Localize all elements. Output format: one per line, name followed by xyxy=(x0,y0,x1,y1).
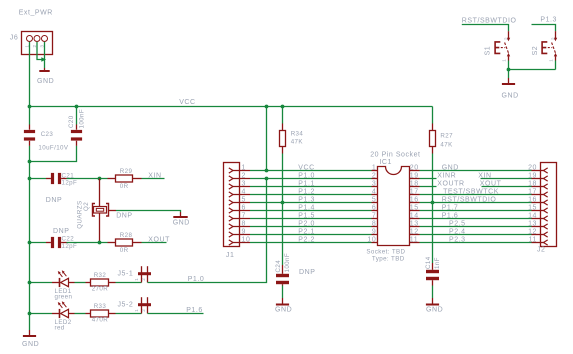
svg-text:C24: C24 xyxy=(275,260,282,273)
wire XOUTR stub from IC1 pin 18 xyxy=(420,186,437,188)
svg-text:1: 1 xyxy=(372,164,376,171)
switch S1 xyxy=(495,31,510,60)
jumper J5-1 xyxy=(138,266,151,282)
svg-text:P2.0: P2.0 xyxy=(298,220,315,227)
svg-text:DNP: DNP xyxy=(53,228,69,235)
IC1 pin 1 lead xyxy=(372,170,378,172)
svg-text:20: 20 xyxy=(528,164,537,171)
connector J1 pin 10 xyxy=(229,240,250,245)
wire P2.5 from IC1 pin 13 to J2 xyxy=(420,226,532,228)
connector J2 pin 16 xyxy=(532,200,548,205)
svg-text:0R: 0R xyxy=(120,247,129,254)
svg-text:9: 9 xyxy=(372,228,376,235)
connector J1 body xyxy=(224,163,240,247)
wire LED2 to R33 xyxy=(75,313,86,315)
svg-text:P1.5: P1.5 xyxy=(298,212,315,219)
svg-text:P1.0: P1.0 xyxy=(298,172,315,179)
svg-text:5: 5 xyxy=(372,196,376,203)
IC1 pin 3 lead xyxy=(372,186,378,188)
IC1 pin 10 lead xyxy=(372,242,378,244)
wire LED1 to R32 xyxy=(75,282,86,284)
svg-text:DNP: DNP xyxy=(299,269,315,276)
connector J2 pin 13 xyxy=(532,224,548,229)
junction arrow J6 pins 2-3 xyxy=(41,57,46,62)
IC1 pin 9 lead xyxy=(372,234,378,236)
wire XIN to J2 pin 19 xyxy=(481,178,532,180)
wire P2.4 from IC1 pin 12 to J2 xyxy=(420,234,532,236)
svg-text:8: 8 xyxy=(242,220,246,227)
connector J2 pin 12 xyxy=(532,232,548,237)
svg-text:R33: R33 xyxy=(94,303,107,310)
switch S2 xyxy=(542,31,557,60)
IC1 pin 6 lead xyxy=(372,210,378,212)
wire P1.3 to S2 xyxy=(532,25,556,32)
connector J1 pin 3 xyxy=(229,184,250,189)
svg-text:R28: R28 xyxy=(120,232,133,239)
wire RST/SBWTDIO from IC1 pin 16 to J2 xyxy=(420,202,532,204)
svg-text:13: 13 xyxy=(528,220,537,227)
ground GND under J6 xyxy=(37,68,54,85)
wire XIN stub xyxy=(142,178,165,180)
resistor R33 xyxy=(86,310,116,317)
svg-text:C23: C23 xyxy=(41,131,54,138)
svg-text:15: 15 xyxy=(528,204,537,211)
connector J2 pin 15 xyxy=(532,208,548,213)
wire LED2 row from GND rail xyxy=(30,313,53,315)
IC1 pin 18 lead xyxy=(410,186,420,188)
svg-text:1nF: 1nF xyxy=(434,257,441,269)
junction GND rail / LED1 xyxy=(28,281,32,285)
svg-text:P1.4: P1.4 xyxy=(298,204,315,211)
wire J1 pin 4 to IC1 pin 4 (P1.2) xyxy=(250,194,372,196)
svg-text:12pF: 12pF xyxy=(62,243,78,250)
connector J2 pin 18 xyxy=(532,184,548,189)
wire J6 pin3 down xyxy=(44,42,46,68)
svg-text:12: 12 xyxy=(528,228,537,235)
svg-text:XOUT: XOUT xyxy=(148,237,170,244)
ground GND bottom of left rail xyxy=(22,330,39,348)
junction VCC / bus riser xyxy=(265,105,269,109)
svg-text:2: 2 xyxy=(372,172,376,179)
svg-text:1: 1 xyxy=(134,309,139,312)
svg-text:470R: 470R xyxy=(92,316,109,323)
svg-text:XIN: XIN xyxy=(478,172,491,179)
connector J1 pin 1 xyxy=(229,168,250,173)
junction R34 column on P1.3 row xyxy=(281,201,285,205)
svg-text:15: 15 xyxy=(410,204,419,211)
connector J1 pin 4 xyxy=(229,192,250,197)
svg-text:DNP: DNP xyxy=(46,197,62,204)
svg-text:16: 16 xyxy=(410,196,419,203)
svg-text:XIN: XIN xyxy=(148,173,161,180)
capacitor C23 xyxy=(24,125,35,146)
junction VCC / left rail xyxy=(28,105,32,109)
IC1 pin 14 lead xyxy=(410,218,420,220)
svg-text:47K: 47K xyxy=(440,141,453,148)
svg-text:3: 3 xyxy=(372,180,376,187)
svg-text:P2.1: P2.1 xyxy=(298,228,315,235)
wire RST/SBWTDIO to S1 xyxy=(462,25,509,32)
ground GND under C14 xyxy=(426,286,443,314)
svg-text:J5-2: J5-2 xyxy=(118,301,134,308)
svg-text:2: 2 xyxy=(551,37,556,40)
wire R33 to J5-2 xyxy=(116,313,142,315)
connector J6 body xyxy=(22,32,53,55)
svg-text:GND: GND xyxy=(37,78,54,85)
svg-text:17: 17 xyxy=(410,188,419,195)
svg-text:R27: R27 xyxy=(440,133,453,140)
svg-text:12pF: 12pF xyxy=(62,180,78,187)
svg-text:2: 2 xyxy=(504,37,509,40)
connector J2 pin 20 xyxy=(532,168,548,173)
wire TEST/SBWTCK from IC1 pin 17 to J2 xyxy=(420,194,532,196)
connector J2 pin 19 xyxy=(532,176,548,181)
svg-text:Q2: Q2 xyxy=(83,202,90,211)
svg-text:J6: J6 xyxy=(10,35,18,42)
svg-text:0R: 0R xyxy=(120,183,129,190)
IC1 pin 7 lead xyxy=(372,218,378,220)
svg-text:10uF/10V: 10uF/10V xyxy=(38,144,69,151)
svg-text:P1.0: P1.0 xyxy=(188,276,205,283)
capacitor C14 xyxy=(426,263,439,286)
junction GND rail / C21 row xyxy=(28,177,32,181)
IC1 pin 11 lead xyxy=(410,242,420,244)
svg-text:100nF: 100nF xyxy=(284,253,291,273)
svg-text:19: 19 xyxy=(528,172,537,179)
IC1 pin 8 lead xyxy=(372,226,378,228)
junction GND rail / C22 row xyxy=(28,241,32,245)
svg-text:XINR: XINR xyxy=(437,172,456,179)
wire J6 pin2 to GND xyxy=(37,42,43,60)
svg-text:S1: S1 xyxy=(485,46,492,56)
wire J1 pin 7 to IC1 pin 7 (P1.5) xyxy=(250,218,372,220)
svg-text:9: 9 xyxy=(242,228,246,235)
wire XOUT row from rail xyxy=(30,242,47,244)
svg-text:C22: C22 xyxy=(62,236,75,243)
wire C20 bottom to GND rail xyxy=(30,146,77,162)
svg-text:GND: GND xyxy=(502,93,519,100)
svg-text:P1.3: P1.3 xyxy=(298,196,315,203)
svg-text:18: 18 xyxy=(528,180,537,187)
svg-text:10: 10 xyxy=(367,236,376,243)
wire left GND rail xyxy=(29,146,31,330)
junction GND rail / LED2 xyxy=(28,312,32,316)
svg-text:GND: GND xyxy=(22,341,39,348)
svg-text:XOUTR: XOUTR xyxy=(437,180,464,187)
svg-text:14: 14 xyxy=(410,212,419,219)
svg-text:RST/SBWTDIO: RST/SBWTDIO xyxy=(462,17,517,24)
wire XIN row from rail xyxy=(30,178,47,180)
resistor R27 xyxy=(430,107,436,154)
svg-text:20: 20 xyxy=(410,164,419,171)
svg-text:Type: TBD: Type: TBD xyxy=(372,256,405,263)
svg-text:16: 16 xyxy=(528,196,537,203)
svg-text:7: 7 xyxy=(372,212,376,219)
wire J1 pin 8 to IC1 pin 8 (P2.0) xyxy=(250,226,372,228)
connector J1 pin 7 xyxy=(229,216,250,221)
resistor R28 xyxy=(108,239,142,246)
wire P1.7 from IC1 pin 15 to J2 xyxy=(420,210,532,212)
junction switch commons xyxy=(507,68,511,72)
wire crystal case to GND xyxy=(116,211,181,213)
svg-text:R29: R29 xyxy=(120,168,133,175)
wire J1 pin 9 to IC1 pin 9 (P2.1) xyxy=(250,234,372,236)
jumper J5-2 xyxy=(138,297,151,313)
junction crystal bottom xyxy=(98,241,102,245)
wire R34 to P1.3 row and C24 xyxy=(282,154,284,266)
wire J1 pin 10 to IC1 pin 10 (P2.2) xyxy=(250,242,372,244)
connector J1 pin 5 xyxy=(229,200,250,205)
crystal Q2 xyxy=(93,179,117,243)
svg-text:17: 17 xyxy=(528,188,537,195)
wire S2 bottom xyxy=(555,61,557,70)
svg-text:R34: R34 xyxy=(291,131,304,138)
wire P1.6 stub xyxy=(148,313,204,315)
wire R27 to RST row and C14 xyxy=(432,154,434,264)
svg-text:14: 14 xyxy=(528,212,537,219)
junction crystal top xyxy=(98,177,102,181)
IC1 pin 12 lead xyxy=(410,234,420,236)
wire P1.0 from J5-1 to bus xyxy=(148,179,267,283)
wire J1 pin 3 to IC1 pin 3 (P1.1) xyxy=(250,186,372,188)
svg-text:GND: GND xyxy=(173,219,190,226)
svg-text:10: 10 xyxy=(242,236,251,243)
svg-text:P2.3: P2.3 xyxy=(449,236,466,243)
svg-text:P2.4: P2.4 xyxy=(449,228,466,235)
wire bus riser VCC xyxy=(266,107,268,171)
wire J1 pin 6 to IC1 pin 6 (P1.4) xyxy=(250,210,372,212)
IC1 pin 15 lead xyxy=(410,210,420,212)
wire J6 pin1 to VCC rail xyxy=(29,42,31,125)
junction VCC / R34 xyxy=(281,105,285,109)
svg-text:19: 19 xyxy=(410,172,419,179)
IC1 pin 17 lead xyxy=(410,194,420,196)
IC1 pin 5 lead xyxy=(372,202,378,204)
wire XINR stub from IC1 pin 19 xyxy=(420,178,437,180)
svg-text:3: 3 xyxy=(242,180,246,187)
LED LED1 xyxy=(52,270,75,287)
capacitor C24 xyxy=(276,265,289,286)
svg-text:TEST/SBWTCK: TEST/SBWTCK xyxy=(443,188,499,195)
svg-text:4: 4 xyxy=(372,188,376,195)
svg-text:8: 8 xyxy=(372,220,376,227)
svg-text:2: 2 xyxy=(242,172,246,179)
wire J1 pin 5 to IC1 pin 5 (P1.3) xyxy=(250,202,372,204)
svg-text:P1.7: P1.7 xyxy=(442,204,459,211)
svg-text:DNP: DNP xyxy=(116,212,132,219)
connector J2 pin 14 xyxy=(532,216,548,221)
junction R27 column on RST row xyxy=(431,201,435,205)
svg-text:4: 4 xyxy=(242,188,246,195)
svg-text:red: red xyxy=(55,325,65,332)
svg-text:J1: J1 xyxy=(226,252,235,259)
wire P1.6 from IC1 pin 14 to J2 xyxy=(420,218,532,220)
svg-text:270R: 270R xyxy=(92,285,109,292)
svg-text:P2.5: P2.5 xyxy=(449,220,466,227)
junction GND rail / C20 return xyxy=(28,160,32,164)
connector J1 pin 2 xyxy=(229,176,250,181)
svg-text:1: 1 xyxy=(242,164,246,171)
wire C20 top xyxy=(76,107,78,125)
wire GND from IC1 pin 20 to J2 xyxy=(420,170,532,172)
svg-text:1: 1 xyxy=(502,59,507,62)
junction riser on VCC row xyxy=(265,169,269,173)
IC1 pin 4 lead xyxy=(372,194,378,196)
connector J2 pin 17 xyxy=(532,192,548,197)
svg-text:GND: GND xyxy=(275,307,292,314)
IC1 pin 2 lead xyxy=(372,178,378,180)
svg-text:2: 2 xyxy=(141,278,146,281)
svg-text:VCC: VCC xyxy=(298,164,314,171)
svg-text:C20: C20 xyxy=(68,115,75,128)
svg-text:R32: R32 xyxy=(94,272,107,279)
connector J1 pin 8 xyxy=(229,224,250,229)
wire J1 pin 2 to IC1 pin 2 (P1.0) xyxy=(250,178,372,180)
connector J1 pin 6 xyxy=(229,208,250,213)
resistor R34 xyxy=(280,107,286,154)
svg-text:13: 13 xyxy=(410,220,419,227)
wire S1 bottom to GND xyxy=(508,61,510,79)
IC1 pin 20 lead xyxy=(410,170,420,172)
connector J2 body xyxy=(541,163,557,247)
net VCC rail xyxy=(30,106,433,108)
capacitor C21 xyxy=(46,173,67,184)
connector J1 pin 9 xyxy=(229,232,250,237)
svg-text:P1.2: P1.2 xyxy=(298,188,315,195)
svg-text:6: 6 xyxy=(242,204,246,211)
svg-text:P1.6: P1.6 xyxy=(442,212,459,219)
ground GND at crystal xyxy=(173,212,190,226)
wire switch common bar xyxy=(509,69,556,71)
svg-text:P2.2: P2.2 xyxy=(298,236,315,243)
wire C21 to crystal column xyxy=(67,178,108,180)
svg-text:6: 6 xyxy=(372,204,376,211)
capacitor C22 xyxy=(46,237,67,248)
wire J1 pin 1 to IC1 pin 1 (VCC) xyxy=(250,170,372,172)
capacitor C20 xyxy=(71,125,82,146)
resistor R29 xyxy=(108,175,142,182)
svg-text:47K: 47K xyxy=(291,138,304,145)
junction riser on P1.0 row xyxy=(265,177,269,181)
connector J2 pin 11 xyxy=(532,240,548,245)
IC1 pin 13 lead xyxy=(410,226,420,228)
ground GND under C24 xyxy=(275,286,292,314)
wire LED1 row from GND rail xyxy=(30,282,53,284)
svg-text:18: 18 xyxy=(410,180,419,187)
svg-text:XOUT: XOUT xyxy=(480,180,502,187)
svg-text:Socket: TBD: Socket: TBD xyxy=(366,249,405,256)
svg-text:1: 1 xyxy=(549,59,554,62)
IC1 pin 16 lead xyxy=(410,202,420,204)
svg-text:GND: GND xyxy=(426,307,443,314)
IC1 pin 19 lead xyxy=(410,178,420,180)
IC IC1 body xyxy=(378,167,410,246)
svg-text:S2: S2 xyxy=(532,46,539,56)
svg-text:P1.3: P1.3 xyxy=(540,17,557,24)
LED LED2 xyxy=(52,301,75,318)
svg-text:RST/SBWTDIO: RST/SBWTDIO xyxy=(442,196,497,203)
svg-text:VCC: VCC xyxy=(179,99,195,106)
svg-text:Ext_PWR: Ext_PWR xyxy=(19,10,53,17)
svg-text:1: 1 xyxy=(134,278,139,281)
svg-text:100nF: 100nF xyxy=(79,109,86,129)
ground GND under switches xyxy=(502,78,519,100)
wire R32 to J5-1 xyxy=(116,282,142,284)
svg-text:J5-1: J5-1 xyxy=(118,270,134,277)
svg-text:7: 7 xyxy=(242,212,246,219)
svg-text:12: 12 xyxy=(410,228,419,235)
wire XOUT to J2 pin 18 xyxy=(482,186,532,188)
svg-text:C14: C14 xyxy=(425,256,432,269)
svg-text:11: 11 xyxy=(410,236,418,243)
svg-text:P1.6: P1.6 xyxy=(186,307,203,314)
junction VCC / C20 xyxy=(75,105,79,109)
wire XOUT stub xyxy=(142,242,167,244)
wire C22 to crystal column xyxy=(67,242,108,244)
svg-text:5: 5 xyxy=(242,196,246,203)
svg-text:green: green xyxy=(55,294,73,301)
svg-text:20 Pin Socket: 20 Pin Socket xyxy=(370,152,420,159)
svg-text:IC1: IC1 xyxy=(379,159,392,166)
svg-text:P1.1: P1.1 xyxy=(298,180,315,187)
svg-text:2: 2 xyxy=(141,309,146,312)
svg-text:GND: GND xyxy=(442,164,459,171)
resistor R32 xyxy=(86,279,116,286)
svg-text:11: 11 xyxy=(529,236,537,243)
wire P2.3 from IC1 pin 11 to J2 xyxy=(420,242,532,244)
svg-text:J2: J2 xyxy=(537,246,546,253)
